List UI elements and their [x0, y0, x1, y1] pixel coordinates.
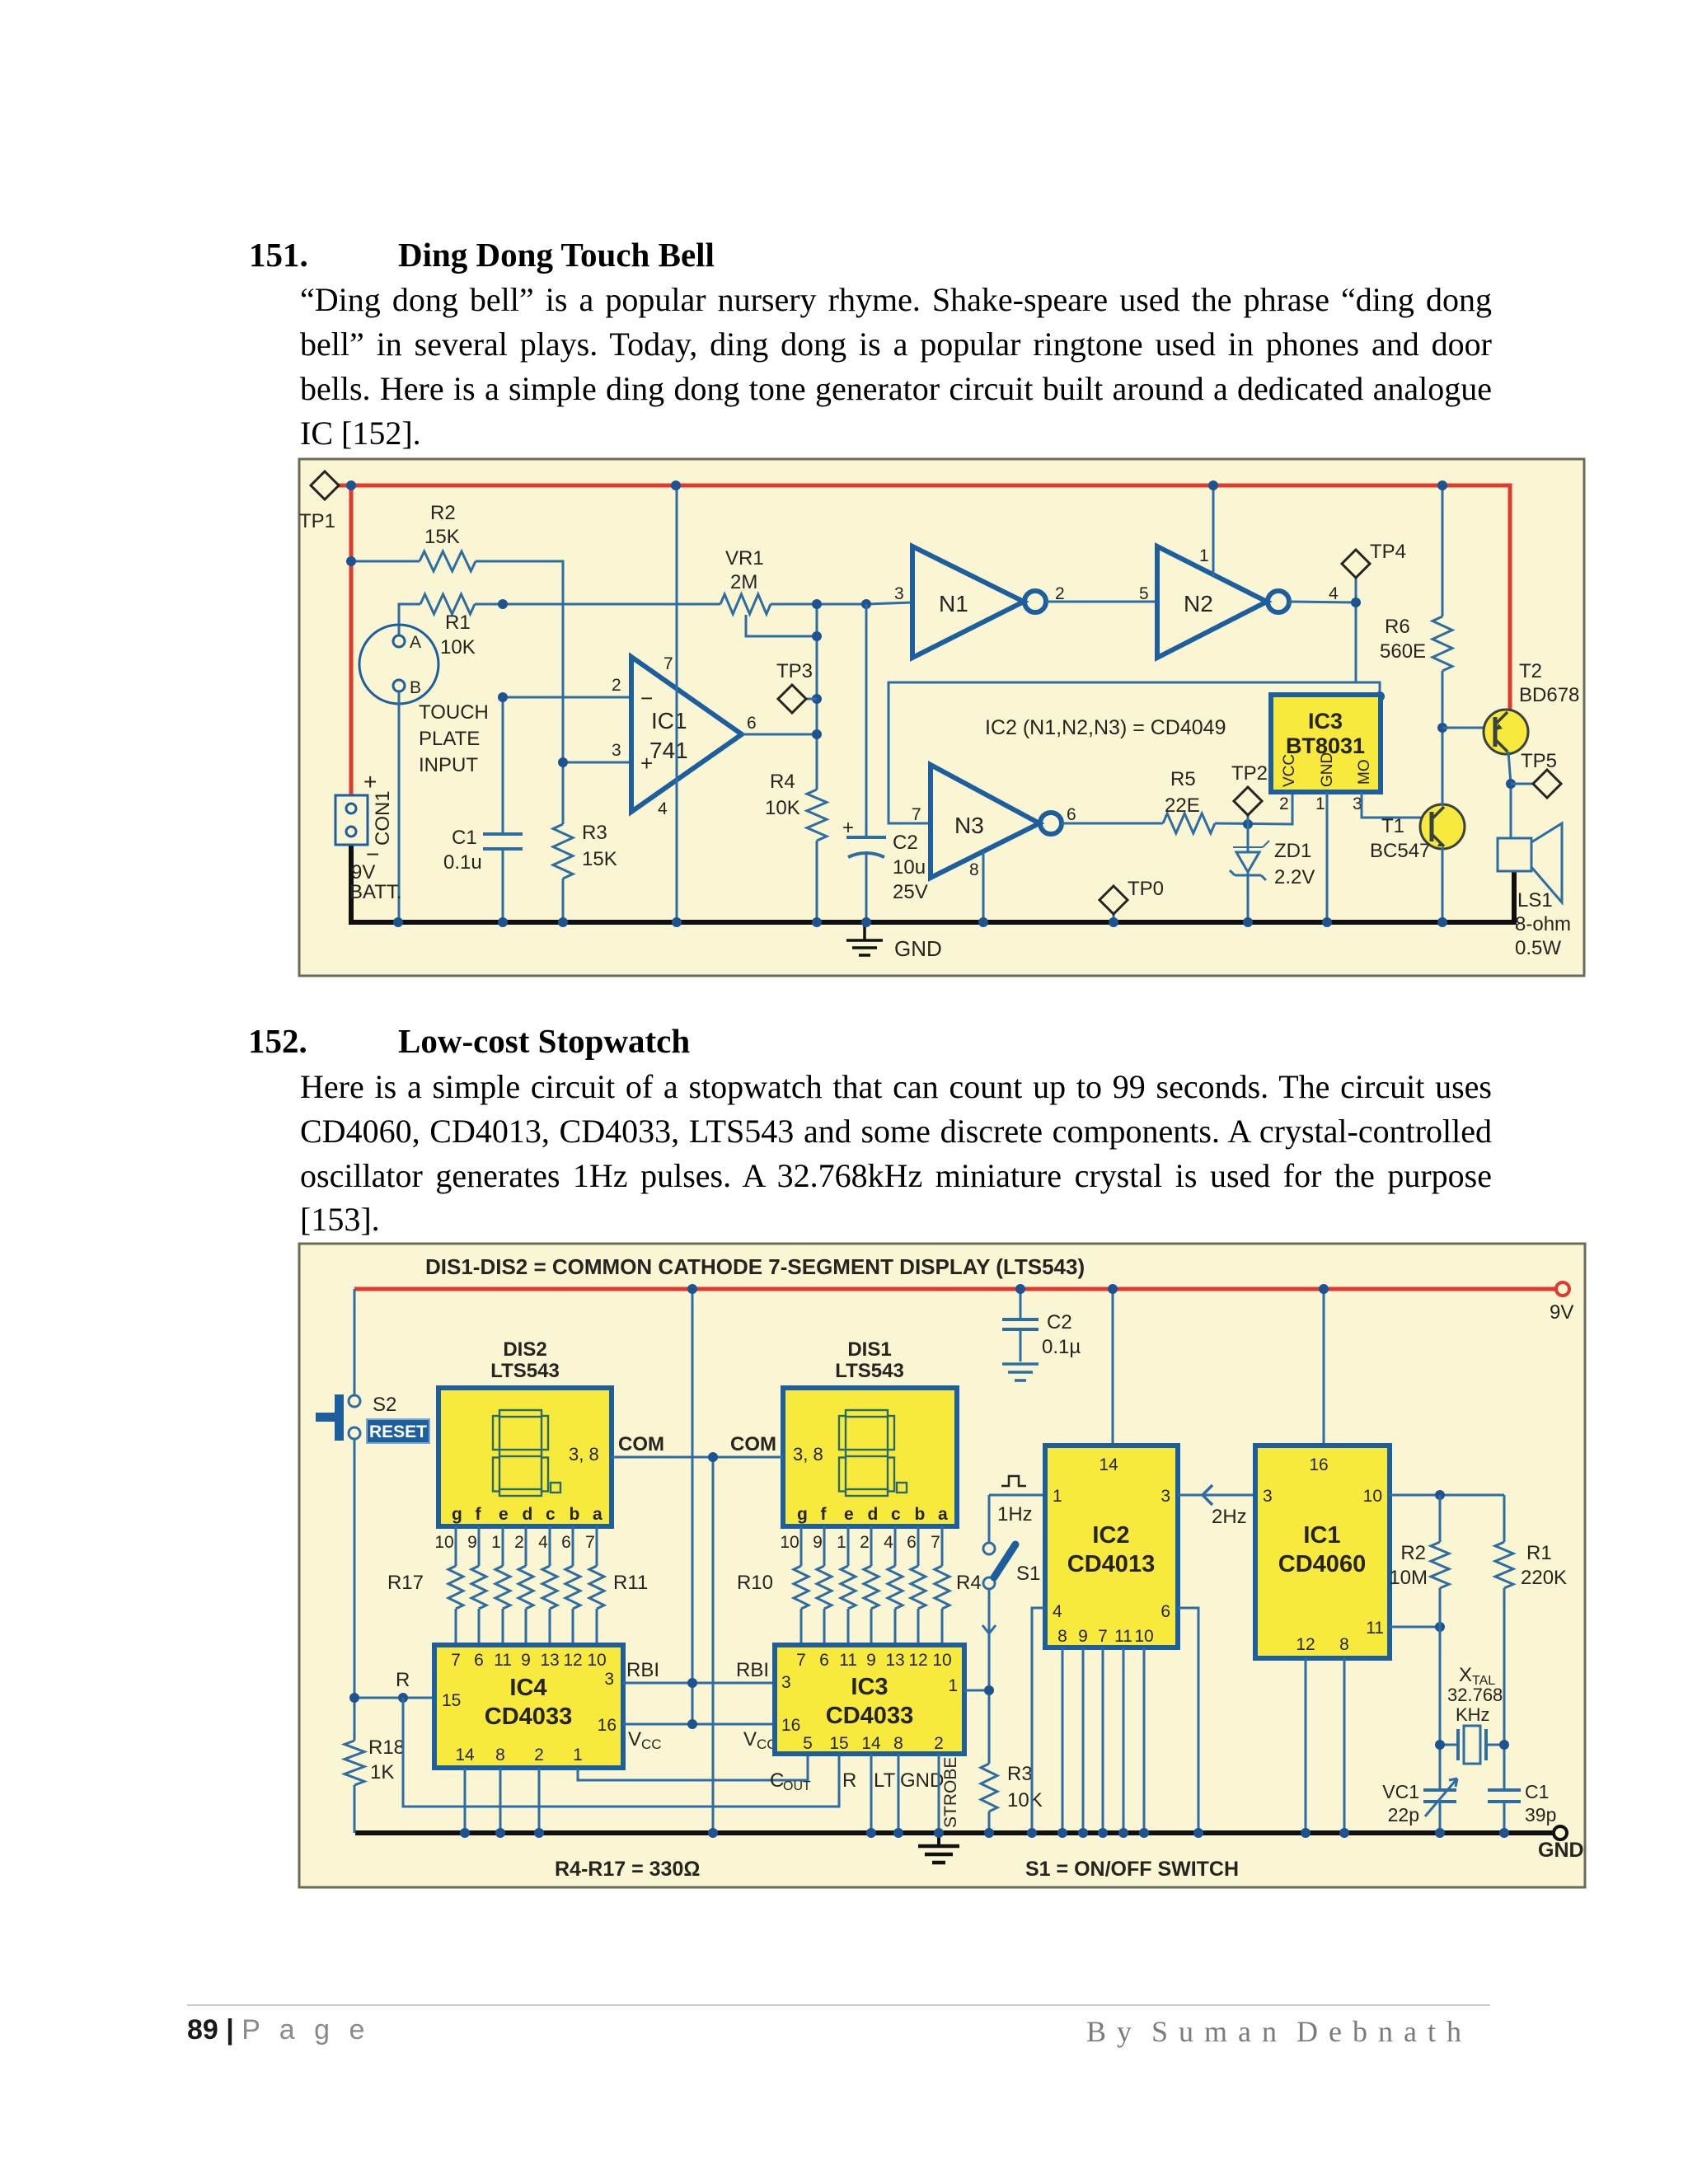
junction dots panel 1 [346, 480, 356, 490]
IC1 bottom pin wires [1305, 1658, 1307, 1833]
feedback wire N2 out to N3 in [889, 602, 1356, 823]
svg-text:7: 7 [585, 1533, 595, 1552]
svg-text:INPUT: INPUT [419, 754, 478, 776]
capacitor C2 0.1u [1020, 1289, 1022, 1361]
paragraph 151 [300, 282, 1492, 318]
svg-text:R11: R11 [613, 1572, 648, 1594]
svg-text:STROBE: STROBE [941, 1757, 960, 1828]
svg-text:15K: 15K [582, 848, 617, 870]
variable resistor VR1 2M [720, 594, 771, 614]
inverter N1 [912, 546, 1024, 658]
svg-text:1: 1 [1199, 546, 1209, 565]
svg-text:8: 8 [495, 1746, 505, 1765]
svg-text:1: 1 [948, 1676, 958, 1695]
svg-text:R5: R5 [1170, 768, 1196, 790]
svg-text:1: 1 [491, 1533, 501, 1552]
Cout wire IC3 pin5 to IC4 pin1 [578, 1754, 808, 1780]
svg-text:R3: R3 [582, 822, 607, 844]
svg-text:9V: 9V [1550, 1301, 1573, 1324]
svg-text:0.1µ: 0.1µ [1042, 1336, 1081, 1358]
resistor R6 560E [1442, 485, 1444, 728]
svg-text:R4: R4 [770, 771, 795, 793]
svg-text:LTS543: LTS543 [490, 1360, 560, 1382]
svg-text:LTS543: LTS543 [835, 1360, 904, 1382]
svg-text:14: 14 [455, 1746, 475, 1765]
svg-text:4: 4 [884, 1533, 893, 1552]
svg-text:LS1: LS1 [1517, 889, 1553, 912]
svg-text:b: b [915, 1505, 926, 1524]
svg-text:d: d [523, 1505, 533, 1524]
variable capacitor VC1 22p [1423, 1790, 1456, 1802]
svg-text:GND: GND [1319, 752, 1336, 787]
switch S1 column [988, 1495, 991, 1833]
svg-text:C: C [770, 1769, 784, 1792]
svg-text:S2: S2 [373, 1394, 396, 1416]
capacitor C1 39p [1488, 1790, 1521, 1802]
reset line to IC3 [403, 1698, 839, 1807]
svg-text:IC1: IC1 [1303, 1522, 1340, 1549]
svg-text:PLATE: PLATE [419, 728, 480, 750]
circuit panel 2 frame [299, 1244, 1585, 1887]
svg-text:e: e [499, 1505, 509, 1524]
svg-text:8: 8 [893, 1734, 903, 1753]
svg-text:7: 7 [451, 1651, 461, 1670]
svg-text:22p: 22p [1388, 1804, 1419, 1825]
svg-text:S1: S1 [1016, 1563, 1040, 1585]
svg-text:6: 6 [474, 1651, 484, 1670]
svg-text:A: A [410, 633, 421, 652]
resistor R3 15K [562, 762, 565, 922]
wire IC3 pin1 to S1 column [964, 1690, 989, 1692]
svg-text:11: 11 [839, 1651, 857, 1670]
heading 151 [249, 235, 308, 274]
zener diode ZD1 2.2V [1247, 824, 1250, 922]
svg-text:−: − [640, 686, 653, 710]
svg-text:IC3: IC3 [1308, 709, 1343, 733]
svg-text:1Hz: 1Hz [997, 1503, 1033, 1526]
svg-text:4: 4 [538, 1533, 548, 1552]
svg-text:9: 9 [467, 1533, 477, 1552]
test point TP3 [805, 698, 817, 701]
svg-text:R2: R2 [1400, 1542, 1426, 1564]
svg-text:3: 3 [1160, 1487, 1170, 1506]
svg-text:7: 7 [1098, 1627, 1108, 1646]
svg-text:TP4: TP4 [1370, 541, 1406, 563]
svg-text:13: 13 [540, 1651, 559, 1670]
capacitor C2 10u 25V [865, 604, 868, 922]
svg-text:COM: COM [618, 1433, 664, 1455]
svg-text:TOUCH: TOUCH [419, 701, 489, 724]
wire T2 base [1442, 727, 1495, 729]
svg-text:R: R [396, 1669, 410, 1691]
svg-text:1: 1 [1315, 794, 1325, 813]
svg-text:11: 11 [494, 1651, 512, 1670]
resistor R2 15K [420, 551, 476, 571]
svg-text:R17: R17 [387, 1572, 424, 1594]
svg-text:12: 12 [1296, 1635, 1315, 1654]
svg-text:16: 16 [1309, 1455, 1328, 1474]
svg-text:22E: 22E [1165, 794, 1200, 817]
svg-text:IC2 (N1,N2,N3) = CD4049: IC2 (N1,N2,N3) = CD4049 [985, 716, 1226, 739]
svg-text:5: 5 [1139, 584, 1149, 603]
IC3 bottom pin wires [870, 1754, 873, 1833]
Vcc wire [623, 1723, 775, 1726]
svg-text:2: 2 [612, 676, 621, 695]
wire IC1 pin2 [503, 696, 631, 699]
svg-text:N1: N1 [939, 591, 968, 616]
svg-text:+: + [842, 817, 854, 839]
svg-text:BD678: BD678 [1519, 684, 1579, 706]
svg-text:C1: C1 [452, 827, 477, 849]
wire R2 row [351, 561, 563, 762]
test point TP5 [1511, 783, 1535, 785]
svg-text:3, 8: 3, 8 [569, 1444, 599, 1465]
svg-text:KHz: KHz [1456, 1704, 1490, 1725]
svg-text:T1: T1 [1381, 815, 1404, 837]
svg-text:CD4033: CD4033 [485, 1704, 572, 1730]
wire T2 emitter to LS1 [1508, 752, 1511, 838]
inverter N2 [1157, 546, 1267, 658]
capacitor C1 0.1u [502, 697, 504, 922]
svg-text:10: 10 [587, 1651, 606, 1670]
svg-text:7: 7 [796, 1651, 806, 1670]
2Hz wire with arrow [1178, 1494, 1255, 1497]
wire N3 pin8 to ground [982, 851, 985, 922]
svg-text:10: 10 [932, 1651, 951, 1670]
svg-text:8: 8 [1339, 1635, 1349, 1654]
IC3 BT8031 [1271, 695, 1381, 792]
svg-text:TP5: TP5 [1521, 750, 1557, 772]
svg-text:C1: C1 [1525, 1781, 1549, 1802]
svg-text:3: 3 [612, 741, 621, 760]
svg-text:8: 8 [969, 860, 979, 879]
svg-text:DIS2: DIS2 [503, 1338, 546, 1361]
crystal XTAL 32.768KHz [1440, 1744, 1504, 1746]
svg-text:6: 6 [1160, 1602, 1170, 1621]
resistor R18 1K [345, 1741, 364, 1785]
test point TP0 [1113, 913, 1115, 922]
pin11 wire [1390, 1626, 1440, 1629]
svg-text:3: 3 [894, 584, 904, 603]
ground rail (black) [351, 845, 1514, 922]
svg-text:X: X [1459, 1664, 1472, 1686]
svg-text:8: 8 [1057, 1627, 1067, 1646]
svg-text:B: B [410, 678, 421, 697]
svg-text:9: 9 [813, 1533, 823, 1552]
wire N2 out / TP4 node [1289, 602, 1356, 602]
IC4 bottom pin wires [464, 1768, 467, 1833]
svg-text:9: 9 [1078, 1627, 1088, 1646]
IC3 CD4033 [775, 1645, 964, 1754]
svg-text:IC3: IC3 [851, 1674, 888, 1700]
op-amp IC1 741 [631, 657, 742, 812]
svg-text:IC2: IC2 [1092, 1522, 1129, 1549]
ground symbol GND [863, 922, 866, 940]
svg-text:9: 9 [521, 1651, 531, 1670]
svg-text:10u: 10u [893, 856, 926, 879]
svg-text:e: e [844, 1505, 854, 1524]
svg-text:10: 10 [1134, 1627, 1153, 1646]
svg-text:5: 5 [803, 1734, 813, 1753]
IC1 CD4060 [1323, 1289, 1325, 1446]
svg-text:COM: COM [730, 1433, 776, 1455]
svg-text:OUT: OUT [783, 1779, 811, 1793]
svg-text:15: 15 [442, 1691, 461, 1710]
9V power rail (red) [338, 485, 1510, 795]
svg-text:1: 1 [1053, 1487, 1062, 1506]
svg-text:13: 13 [885, 1651, 904, 1670]
svg-text:0.5W: 0.5W [1515, 937, 1561, 959]
svg-text:1K: 1K [370, 1761, 394, 1783]
IC2 CD4013 [1112, 1289, 1114, 1446]
svg-text:1: 1 [573, 1746, 583, 1765]
svg-text:TP0: TP0 [1128, 878, 1164, 900]
svg-text:4: 4 [658, 799, 668, 818]
svg-text:39p: 39p [1525, 1804, 1556, 1825]
svg-text:GND: GND [900, 1769, 944, 1792]
svg-text:S1 = ON/OFF SWITCH: S1 = ON/OFF SWITCH [1025, 1858, 1239, 1881]
svg-text:V: V [628, 1728, 641, 1750]
svg-text:C2: C2 [893, 832, 918, 854]
svg-text:220K: 220K [1521, 1567, 1567, 1589]
wire T1 collector / emitter [1442, 728, 1444, 922]
wire VR1 out to N1 [861, 599, 871, 609]
svg-text:R4-R17 = 330Ω: R4-R17 = 330Ω [555, 1858, 700, 1881]
svg-text:3, 8: 3, 8 [793, 1444, 823, 1465]
pin10 wire to R1 column [1390, 1494, 1504, 1497]
svg-text:2: 2 [1279, 794, 1289, 813]
svg-text:c: c [546, 1505, 556, 1524]
wire IC3 pin3 MO to T1 base [1362, 792, 1431, 818]
reset node wires [354, 1697, 434, 1699]
svg-text:R4: R4 [956, 1572, 982, 1594]
svg-text:c: c [891, 1505, 901, 1524]
resistor R4 10K [807, 790, 827, 841]
svg-text:10K: 10K [440, 636, 476, 658]
svg-text:741: 741 [649, 738, 688, 763]
svg-text:DIS1: DIS1 [847, 1338, 891, 1361]
heading 152 [248, 1021, 307, 1061]
svg-text:11: 11 [1366, 1619, 1384, 1638]
svg-text:32.768: 32.768 [1447, 1685, 1503, 1705]
inverter N3 [931, 765, 1039, 878]
svg-text:0.1u: 0.1u [443, 851, 482, 874]
svg-text:9V: 9V [351, 861, 375, 883]
svg-text:7: 7 [663, 654, 673, 673]
IC2 pin4 wire [1032, 1608, 1045, 1833]
svg-text:CD4013: CD4013 [1067, 1551, 1155, 1577]
wire IC1 pin7 to rail / pin4 to ground [676, 485, 678, 922]
svg-text:12: 12 [563, 1651, 582, 1670]
svg-text:16: 16 [598, 1716, 617, 1735]
junction dots panel 2 rail [460, 1828, 470, 1838]
svg-text:25V: 25V [893, 881, 928, 903]
svg-text:15: 15 [829, 1734, 848, 1753]
svg-text:2: 2 [860, 1533, 870, 1552]
wire branch to IC3 top [1356, 682, 1380, 696]
svg-text:f: f [821, 1505, 828, 1524]
svg-text:R: R [842, 1769, 856, 1792]
svg-text:2Hz: 2Hz [1212, 1506, 1247, 1528]
svg-text:2.2V: 2.2V [1274, 866, 1315, 888]
transistor T2 BD678 [1484, 710, 1528, 754]
Vcc feed column [692, 1289, 694, 1724]
svg-text:a: a [593, 1505, 603, 1524]
svg-text:a: a [938, 1505, 948, 1524]
test point TP4 [1355, 577, 1357, 602]
svg-text:ZD1: ZD1 [1274, 840, 1311, 862]
transistor T1 BC547 [1420, 804, 1465, 849]
svg-text:R3: R3 [1007, 1763, 1033, 1785]
svg-text:2: 2 [534, 1746, 544, 1765]
svg-text:10M: 10M [1389, 1567, 1428, 1589]
node column x991 [816, 604, 818, 922]
footer left: page number [187, 2014, 370, 2046]
svg-text:IC1: IC1 [651, 708, 687, 733]
svg-text:RBI: RBI [736, 1659, 769, 1681]
svg-text:b: b [570, 1505, 580, 1524]
svg-text:TP1: TP1 [299, 510, 335, 532]
svg-text:RESET: RESET [369, 1422, 427, 1441]
svg-text:11: 11 [1114, 1627, 1132, 1646]
svg-text:560E: 560E [1380, 640, 1426, 663]
touch plate circle [359, 625, 438, 704]
RBI wire [623, 1682, 775, 1685]
svg-text:N2: N2 [1184, 591, 1213, 616]
svg-text:GND: GND [894, 936, 942, 961]
battery connector CON1 [335, 795, 368, 845]
svg-text:VR1: VR1 [725, 547, 764, 569]
loudspeaker LS1 [1498, 838, 1531, 871]
IC2 pin6 wire [1178, 1608, 1198, 1833]
svg-text:6: 6 [1067, 805, 1076, 824]
resistor R3 10K [981, 1764, 997, 1811]
left column wire with S2 [354, 1289, 356, 1833]
RESET badge [367, 1419, 429, 1443]
svg-text:14: 14 [1099, 1455, 1118, 1474]
wire IC1 output pin6 [742, 733, 817, 736]
svg-text:BATT.: BATT. [349, 881, 402, 903]
svg-text:2: 2 [934, 1734, 944, 1753]
wire IC1 pin3 [563, 762, 631, 764]
svg-text:R1: R1 [1526, 1542, 1552, 1564]
svg-text:CD4060: CD4060 [1278, 1551, 1366, 1577]
svg-text:16: 16 [781, 1716, 800, 1735]
svg-text:R6: R6 [1385, 616, 1410, 638]
svg-text:10: 10 [434, 1533, 453, 1552]
svg-text:3: 3 [604, 1670, 614, 1689]
svg-text:1: 1 [837, 1533, 846, 1552]
svg-text:R2: R2 [430, 502, 456, 524]
svg-text:10K: 10K [765, 797, 800, 819]
svg-text:CD4033: CD4033 [826, 1703, 913, 1729]
svg-text:4: 4 [1053, 1602, 1062, 1621]
svg-text:R10: R10 [737, 1572, 773, 1594]
svg-text:N3: N3 [954, 813, 984, 838]
svg-text:TP3: TP3 [776, 660, 813, 682]
svg-text:7: 7 [931, 1533, 940, 1552]
9V rail (red) [354, 1287, 1556, 1291]
footer right: author [1086, 2014, 1463, 2049]
1Hz input wire [989, 1494, 1045, 1497]
svg-text:15K: 15K [424, 526, 460, 548]
wire N3 out / resistor R5 22E [1062, 792, 1292, 824]
svg-text:10: 10 [1363, 1487, 1382, 1506]
svg-text:R1: R1 [445, 612, 471, 634]
svg-text:14: 14 [861, 1734, 881, 1753]
svg-text:T2: T2 [1519, 660, 1542, 682]
svg-text:7: 7 [912, 805, 921, 824]
footer rule [187, 2004, 1490, 2006]
svg-text:9: 9 [866, 1651, 876, 1670]
svg-text:6: 6 [907, 1533, 917, 1552]
svg-text:BC547: BC547 [1370, 840, 1430, 862]
svg-text:12: 12 [908, 1651, 927, 1670]
resistor R1 10K [420, 594, 475, 614]
circuit panel 1 frame [299, 459, 1584, 976]
wire N1 out to N2 [1046, 601, 1157, 603]
svg-text:f: f [476, 1505, 482, 1524]
wire N2 pin1 to rail [1212, 485, 1215, 577]
resistor R1 220K [1503, 1495, 1506, 1833]
svg-text:3: 3 [781, 1673, 791, 1692]
IC4 CD4033 [434, 1645, 623, 1768]
svg-text:LT: LT [874, 1769, 896, 1792]
svg-text:6: 6 [747, 714, 757, 733]
svg-text:4: 4 [1329, 584, 1339, 603]
svg-text:8-ohm: 8-ohm [1515, 913, 1571, 935]
test point TP2 [1247, 814, 1250, 824]
svg-text:6: 6 [561, 1533, 571, 1552]
wire touch plate B to ground [398, 691, 401, 922]
svg-text:C2: C2 [1047, 1311, 1072, 1333]
wire IC3 pin1 to ground [1326, 792, 1329, 922]
svg-text:2: 2 [514, 1533, 524, 1552]
svg-text:IC4: IC4 [509, 1675, 546, 1701]
svg-text:VCC: VCC [1281, 754, 1298, 787]
segment pin wires + resistor network DIS2 (R17..R11) [455, 1526, 457, 1645]
svg-text:MO: MO [1356, 759, 1373, 785]
svg-text:R18: R18 [368, 1736, 405, 1759]
svg-text:6: 6 [819, 1651, 829, 1670]
svg-text:2M: 2M [730, 571, 757, 593]
svg-text:CON1: CON1 [372, 790, 394, 846]
svg-text:CC: CC [641, 1736, 662, 1752]
svg-text:V: V [743, 1728, 757, 1750]
svg-text:10K: 10K [1007, 1789, 1043, 1811]
pushbutton S2 [335, 1394, 344, 1441]
svg-text:10: 10 [780, 1533, 799, 1552]
svg-text:DIS1-DIS2 = COMMON CATHODE 7-S: DIS1-DIS2 = COMMON CATHODE 7-SEGMENT DIS… [425, 1254, 1085, 1279]
paragraph 152 [300, 1069, 1492, 1105]
ground rail (black) [355, 1830, 1553, 1835]
resistor R2 10M [1439, 1495, 1442, 1833]
svg-text:d: d [868, 1505, 879, 1524]
svg-text:TP2: TP2 [1231, 762, 1268, 785]
COM ground column [712, 1457, 715, 1833]
svg-text:g: g [452, 1505, 462, 1524]
svg-text:GND: GND [1538, 1839, 1584, 1862]
ground symbol panel2 [937, 1833, 940, 1844]
test point TP1 [311, 471, 339, 499]
wire R1 row [399, 602, 912, 636]
svg-text:VC1: VC1 [1382, 1781, 1419, 1802]
IC2 bottom pin wires [1062, 1647, 1064, 1833]
svg-text:RBI: RBI [626, 1659, 659, 1681]
segment pin wires + resistor network DIS1 (R10..R4) [800, 1526, 803, 1645]
svg-text:g: g [797, 1505, 808, 1524]
svg-text:3: 3 [1263, 1487, 1273, 1506]
